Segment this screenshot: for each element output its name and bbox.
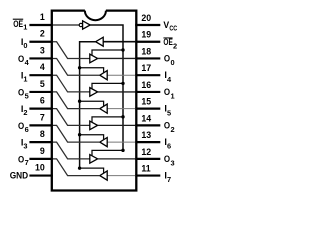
svg-text:4: 4 bbox=[40, 62, 45, 72]
svg-text:O: O bbox=[18, 54, 24, 64]
junction on OE2 rail at O7 tap bbox=[78, 166, 81, 169]
pin 5 lead bbox=[29, 91, 53, 93]
pin 15 lead bbox=[135, 108, 160, 110]
wire input I0 (pin diagonal to buffer) bbox=[53, 42, 90, 59]
pin 9 lead bbox=[29, 158, 53, 160]
svg-text:3: 3 bbox=[171, 158, 175, 167]
svg-text:1: 1 bbox=[23, 75, 27, 84]
wire output O2 to pin bbox=[98, 124, 136, 126]
svg-text:GND: GND bbox=[10, 170, 29, 180]
svg-text:14: 14 bbox=[141, 113, 151, 123]
pin 3 lead bbox=[29, 57, 53, 59]
wire input I6 from pin to buffer bbox=[107, 141, 135, 143]
buffer I0 to O0 (3-state, right) bbox=[90, 54, 98, 63]
wire enable tap from OE2 rail to buffer I6 bbox=[80, 135, 104, 140]
junction on OE1 rail at O3 tap bbox=[121, 149, 124, 152]
svg-text:OE: OE bbox=[13, 19, 23, 29]
svg-text:3: 3 bbox=[40, 45, 45, 55]
svg-text:20: 20 bbox=[141, 13, 151, 23]
junction on OE2 rail at O4 tap bbox=[78, 66, 81, 69]
svg-text:7: 7 bbox=[25, 158, 29, 167]
pin 19 lead bbox=[135, 41, 160, 43]
wire enable tap from OE2 rail to buffer I7 bbox=[80, 168, 104, 173]
wire enable tap from OE1 rail to buffer I2 bbox=[92, 117, 123, 122]
svg-text:18: 18 bbox=[141, 46, 151, 56]
wire output O3 to pin bbox=[98, 158, 136, 160]
pin-1 index notch bbox=[85, 11, 106, 21]
svg-text:1: 1 bbox=[23, 22, 27, 31]
wire OE2 rail (vertical enable bus 2) bbox=[80, 42, 96, 168]
svg-text:5: 5 bbox=[40, 79, 45, 89]
svg-text:9: 9 bbox=[40, 146, 45, 156]
svg-text:2: 2 bbox=[40, 29, 45, 39]
inverter bubble on OE1 buffer input bbox=[79, 23, 82, 26]
pin 20 lead bbox=[135, 24, 160, 26]
svg-text:6: 6 bbox=[40, 96, 45, 106]
junction on OE1 rail at O2 tap bbox=[121, 115, 124, 118]
wire pin1 to OE1 buffer input bbox=[53, 24, 79, 26]
pin 6 lead bbox=[29, 108, 53, 110]
pin 4 lead bbox=[29, 74, 53, 76]
svg-text:1: 1 bbox=[40, 12, 45, 22]
svg-text:16: 16 bbox=[141, 80, 151, 90]
svg-text:10: 10 bbox=[35, 163, 45, 173]
wire enable tap from OE2 rail to buffer I4 bbox=[80, 68, 104, 73]
svg-text:2: 2 bbox=[23, 108, 27, 117]
svg-text:O: O bbox=[164, 154, 170, 164]
svg-text:O: O bbox=[164, 53, 170, 63]
buffer I3 to O3 (3-state, right) bbox=[90, 155, 98, 164]
svg-text:2: 2 bbox=[171, 125, 175, 134]
buffer U1 (OE1 enable driver) bbox=[83, 21, 91, 29]
buffer U2 (OE2 enable driver) bbox=[96, 37, 104, 46]
wire OE1 rail (vertical enable bus 1) bbox=[90, 25, 123, 150]
svg-text:5: 5 bbox=[25, 91, 29, 100]
svg-text:O: O bbox=[164, 87, 170, 97]
wire enable tap from OE1 rail to buffer I1 bbox=[92, 83, 123, 88]
buffer I1 to O1 (3-state, right) bbox=[90, 88, 98, 97]
pin 2 lead bbox=[29, 41, 53, 43]
buffer I6 to O6 (3-state, left) bbox=[100, 138, 107, 147]
wire output O4 (buffer diagonal to pin) bbox=[53, 58, 100, 75]
buffer I5 to O5 (3-state, left) bbox=[100, 104, 107, 113]
svg-text:8: 8 bbox=[40, 129, 45, 139]
pin 8 lead bbox=[29, 141, 53, 143]
wire pin19 to OE2 buffer input bbox=[103, 41, 135, 43]
junction on OE1 rail at O1 tap bbox=[121, 82, 124, 85]
svg-text:2: 2 bbox=[173, 41, 177, 50]
buffer I7 to O7 (3-state, left) bbox=[100, 171, 107, 180]
pin 14 lead bbox=[135, 124, 160, 126]
svg-text:17: 17 bbox=[141, 63, 151, 73]
wire input I2 (pin diagonal to buffer) bbox=[53, 109, 90, 126]
pin 13 lead bbox=[135, 141, 160, 143]
wire output O1 to pin bbox=[98, 91, 136, 93]
junction on OE1 rail at O0 tap bbox=[121, 48, 124, 51]
svg-text:7: 7 bbox=[167, 175, 171, 184]
wire input I3 (pin diagonal to buffer) bbox=[53, 142, 90, 159]
pin 1 lead bbox=[29, 24, 53, 26]
svg-text:O: O bbox=[18, 87, 24, 97]
svg-text:5: 5 bbox=[167, 108, 171, 117]
pin 10 lead bbox=[29, 174, 53, 176]
wire input I4 from pin to buffer bbox=[107, 74, 135, 76]
wire enable tap from OE2 rail to buffer I5 bbox=[80, 101, 104, 106]
svg-text:6: 6 bbox=[167, 142, 171, 151]
wire output O7 (buffer diagonal to pin) bbox=[53, 159, 100, 176]
svg-text:OE: OE bbox=[163, 37, 172, 47]
svg-text:4: 4 bbox=[25, 58, 30, 67]
pin 7 lead bbox=[29, 124, 53, 126]
wire input I7 from pin to buffer bbox=[107, 175, 135, 177]
svg-text:15: 15 bbox=[141, 97, 151, 107]
wire output O6 (buffer diagonal to pin) bbox=[53, 125, 100, 142]
pin 11 lead bbox=[135, 174, 160, 176]
wire input I5 from pin to buffer bbox=[107, 108, 135, 110]
svg-text:6: 6 bbox=[25, 125, 29, 134]
pin 17 lead bbox=[135, 74, 160, 76]
IC package DIP20 outline bbox=[52, 11, 137, 191]
svg-text:0: 0 bbox=[171, 58, 175, 67]
svg-text:O: O bbox=[18, 121, 24, 131]
junction on OE2 rail at O5 tap bbox=[78, 100, 81, 103]
svg-text:0: 0 bbox=[23, 41, 27, 50]
buffer I2 to O2 (3-state, right) bbox=[90, 121, 98, 130]
buffer I4 to O4 (3-state, left) bbox=[100, 71, 107, 80]
svg-text:O: O bbox=[164, 120, 170, 130]
wire output O5 (buffer diagonal to pin) bbox=[53, 92, 100, 109]
wire enable tap from OE1 rail to buffer I3 bbox=[92, 150, 123, 155]
svg-text:7: 7 bbox=[40, 112, 45, 122]
pin 12 lead bbox=[135, 158, 160, 160]
svg-text:12: 12 bbox=[141, 147, 151, 157]
wire output O0 to pin bbox=[98, 57, 136, 59]
svg-text:11: 11 bbox=[141, 164, 150, 174]
pin 16 lead bbox=[135, 91, 160, 93]
svg-text:CC: CC bbox=[169, 25, 177, 32]
junction on OE2 rail at O6 tap bbox=[78, 133, 81, 136]
svg-text:1: 1 bbox=[171, 92, 175, 101]
wire input I1 (pin diagonal to buffer) bbox=[53, 75, 90, 92]
svg-text:O: O bbox=[18, 154, 24, 164]
svg-text:4: 4 bbox=[167, 75, 172, 84]
svg-text:19: 19 bbox=[141, 30, 151, 40]
pin 18 lead bbox=[135, 57, 160, 59]
svg-text:3: 3 bbox=[23, 142, 27, 151]
wire enable tap from OE1 rail to buffer I0 bbox=[92, 50, 123, 55]
svg-text:13: 13 bbox=[141, 130, 151, 140]
